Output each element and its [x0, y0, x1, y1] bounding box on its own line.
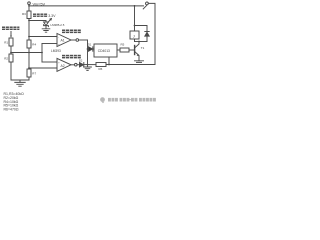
svg-text:J: J: [133, 35, 135, 39]
node hysteresis: [28, 52, 30, 54]
wire contact output: [148, 3, 155, 64]
resistor R1: [9, 38, 13, 46]
svg-text:R1: R1: [4, 41, 8, 45]
contact terminal circle: [146, 2, 149, 5]
svg-text:R6=470Ω: R6=470Ω: [4, 108, 19, 112]
wire corner down: [87, 40, 89, 65]
input arrow: [10, 32, 12, 37]
wire A2 output: [71, 64, 75, 66]
wire top supply rail: [29, 5, 144, 7]
svg-text:A1: A1: [61, 39, 65, 43]
node comparator common: [41, 52, 43, 54]
node A2 input: [28, 67, 30, 69]
resistor R4: [27, 40, 31, 48]
pin bottom wire: [108, 57, 110, 65]
IC U3 CD4013: [94, 44, 117, 57]
op-amp A2: [57, 58, 71, 71]
wire: [28, 77, 30, 80]
legend resistor values: [4, 92, 25, 112]
svg-text:T1: T1: [141, 46, 145, 50]
wire to A1 input: [29, 36, 57, 38]
node collector: [138, 41, 140, 43]
wire to A1 lower input: [42, 43, 57, 45]
wire common vertical: [41, 44, 43, 63]
svg-text:D2: D2: [79, 59, 83, 63]
relay contact blade: [143, 5, 147, 9]
node output circle: [75, 63, 78, 66]
diode D1: [89, 47, 93, 51]
pin Q wire: [117, 49, 120, 51]
svg-text:R3: R3: [22, 12, 26, 16]
node ref: [28, 20, 30, 22]
label 欠电压信号: [62, 55, 81, 59]
wire to base: [129, 49, 135, 51]
label 遥信电压 (input): [2, 27, 19, 31]
svg-text:R2: R2: [4, 57, 8, 61]
svg-text:R6: R6: [99, 67, 103, 71]
node wired-or: [87, 64, 89, 66]
node supply: [134, 5, 136, 7]
svg-text:R5: R5: [121, 43, 125, 47]
wire: [79, 39, 88, 41]
resistor R6: [96, 63, 106, 67]
node divider tap: [10, 52, 12, 54]
ground (left): [15, 80, 25, 86]
wire: [84, 64, 96, 66]
pin S stub: [114, 49, 117, 51]
wire relay top: [134, 26, 136, 32]
wire A1 output: [71, 39, 76, 41]
diode D2: [80, 63, 84, 67]
svg-text:LM393: LM393: [51, 49, 61, 53]
svg-text:3.3V: 3.3V: [48, 14, 56, 18]
node output circle: [76, 39, 79, 42]
wire: [28, 5, 30, 12]
svg-text:R4: R4: [32, 43, 36, 47]
svg-text:D1: D1: [88, 43, 92, 47]
node relay top: [134, 25, 136, 27]
resistor R3: [27, 11, 31, 19]
wire collector net: [135, 41, 148, 43]
transistor T1: [134, 46, 136, 55]
wire: [77, 64, 79, 66]
resistor R5: [120, 48, 129, 52]
ground (node): [84, 65, 92, 71]
node A1+: [28, 36, 30, 38]
node pin junction: [108, 64, 110, 66]
svg-text:LM385-2.5: LM385-2.5: [51, 23, 65, 27]
zener U2 LM385-2.5: [45, 21, 47, 23]
node top-rail junction: [28, 5, 30, 7]
relay J coil: [130, 31, 139, 39]
watermark: [100, 97, 156, 103]
wire: [135, 26, 148, 32]
wire bottom rail: [106, 64, 155, 66]
resistor R2: [9, 54, 13, 62]
wire: [10, 62, 12, 80]
wire bottom-left rail: [11, 79, 29, 81]
svg-text:-: -: [58, 36, 59, 39]
svg-text:CD4013: CD4013: [98, 49, 110, 53]
wire to A2 upper input: [42, 61, 57, 63]
terminal Vin: [28, 2, 31, 5]
ground (emitter): [135, 61, 144, 63]
op-amp A1: [57, 34, 71, 47]
resistor R7: [27, 69, 31, 77]
svg-text:R7: R7: [32, 72, 36, 76]
wire: [28, 19, 30, 41]
wire to A2 input: [29, 67, 57, 69]
ground (reference): [42, 29, 50, 32]
wire: [28, 48, 30, 69]
label 基准电压3.3V: [33, 14, 47, 17]
wire tap to comparators: [11, 52, 42, 54]
svg-text:A2: A2: [61, 64, 65, 68]
node D1: [87, 48, 89, 50]
diode D3 flyback: [145, 31, 149, 33]
wire to reference: [29, 20, 46, 22]
wire: [10, 46, 12, 54]
label 过电压信号: [62, 30, 81, 34]
wire supply drop: [134, 6, 136, 26]
